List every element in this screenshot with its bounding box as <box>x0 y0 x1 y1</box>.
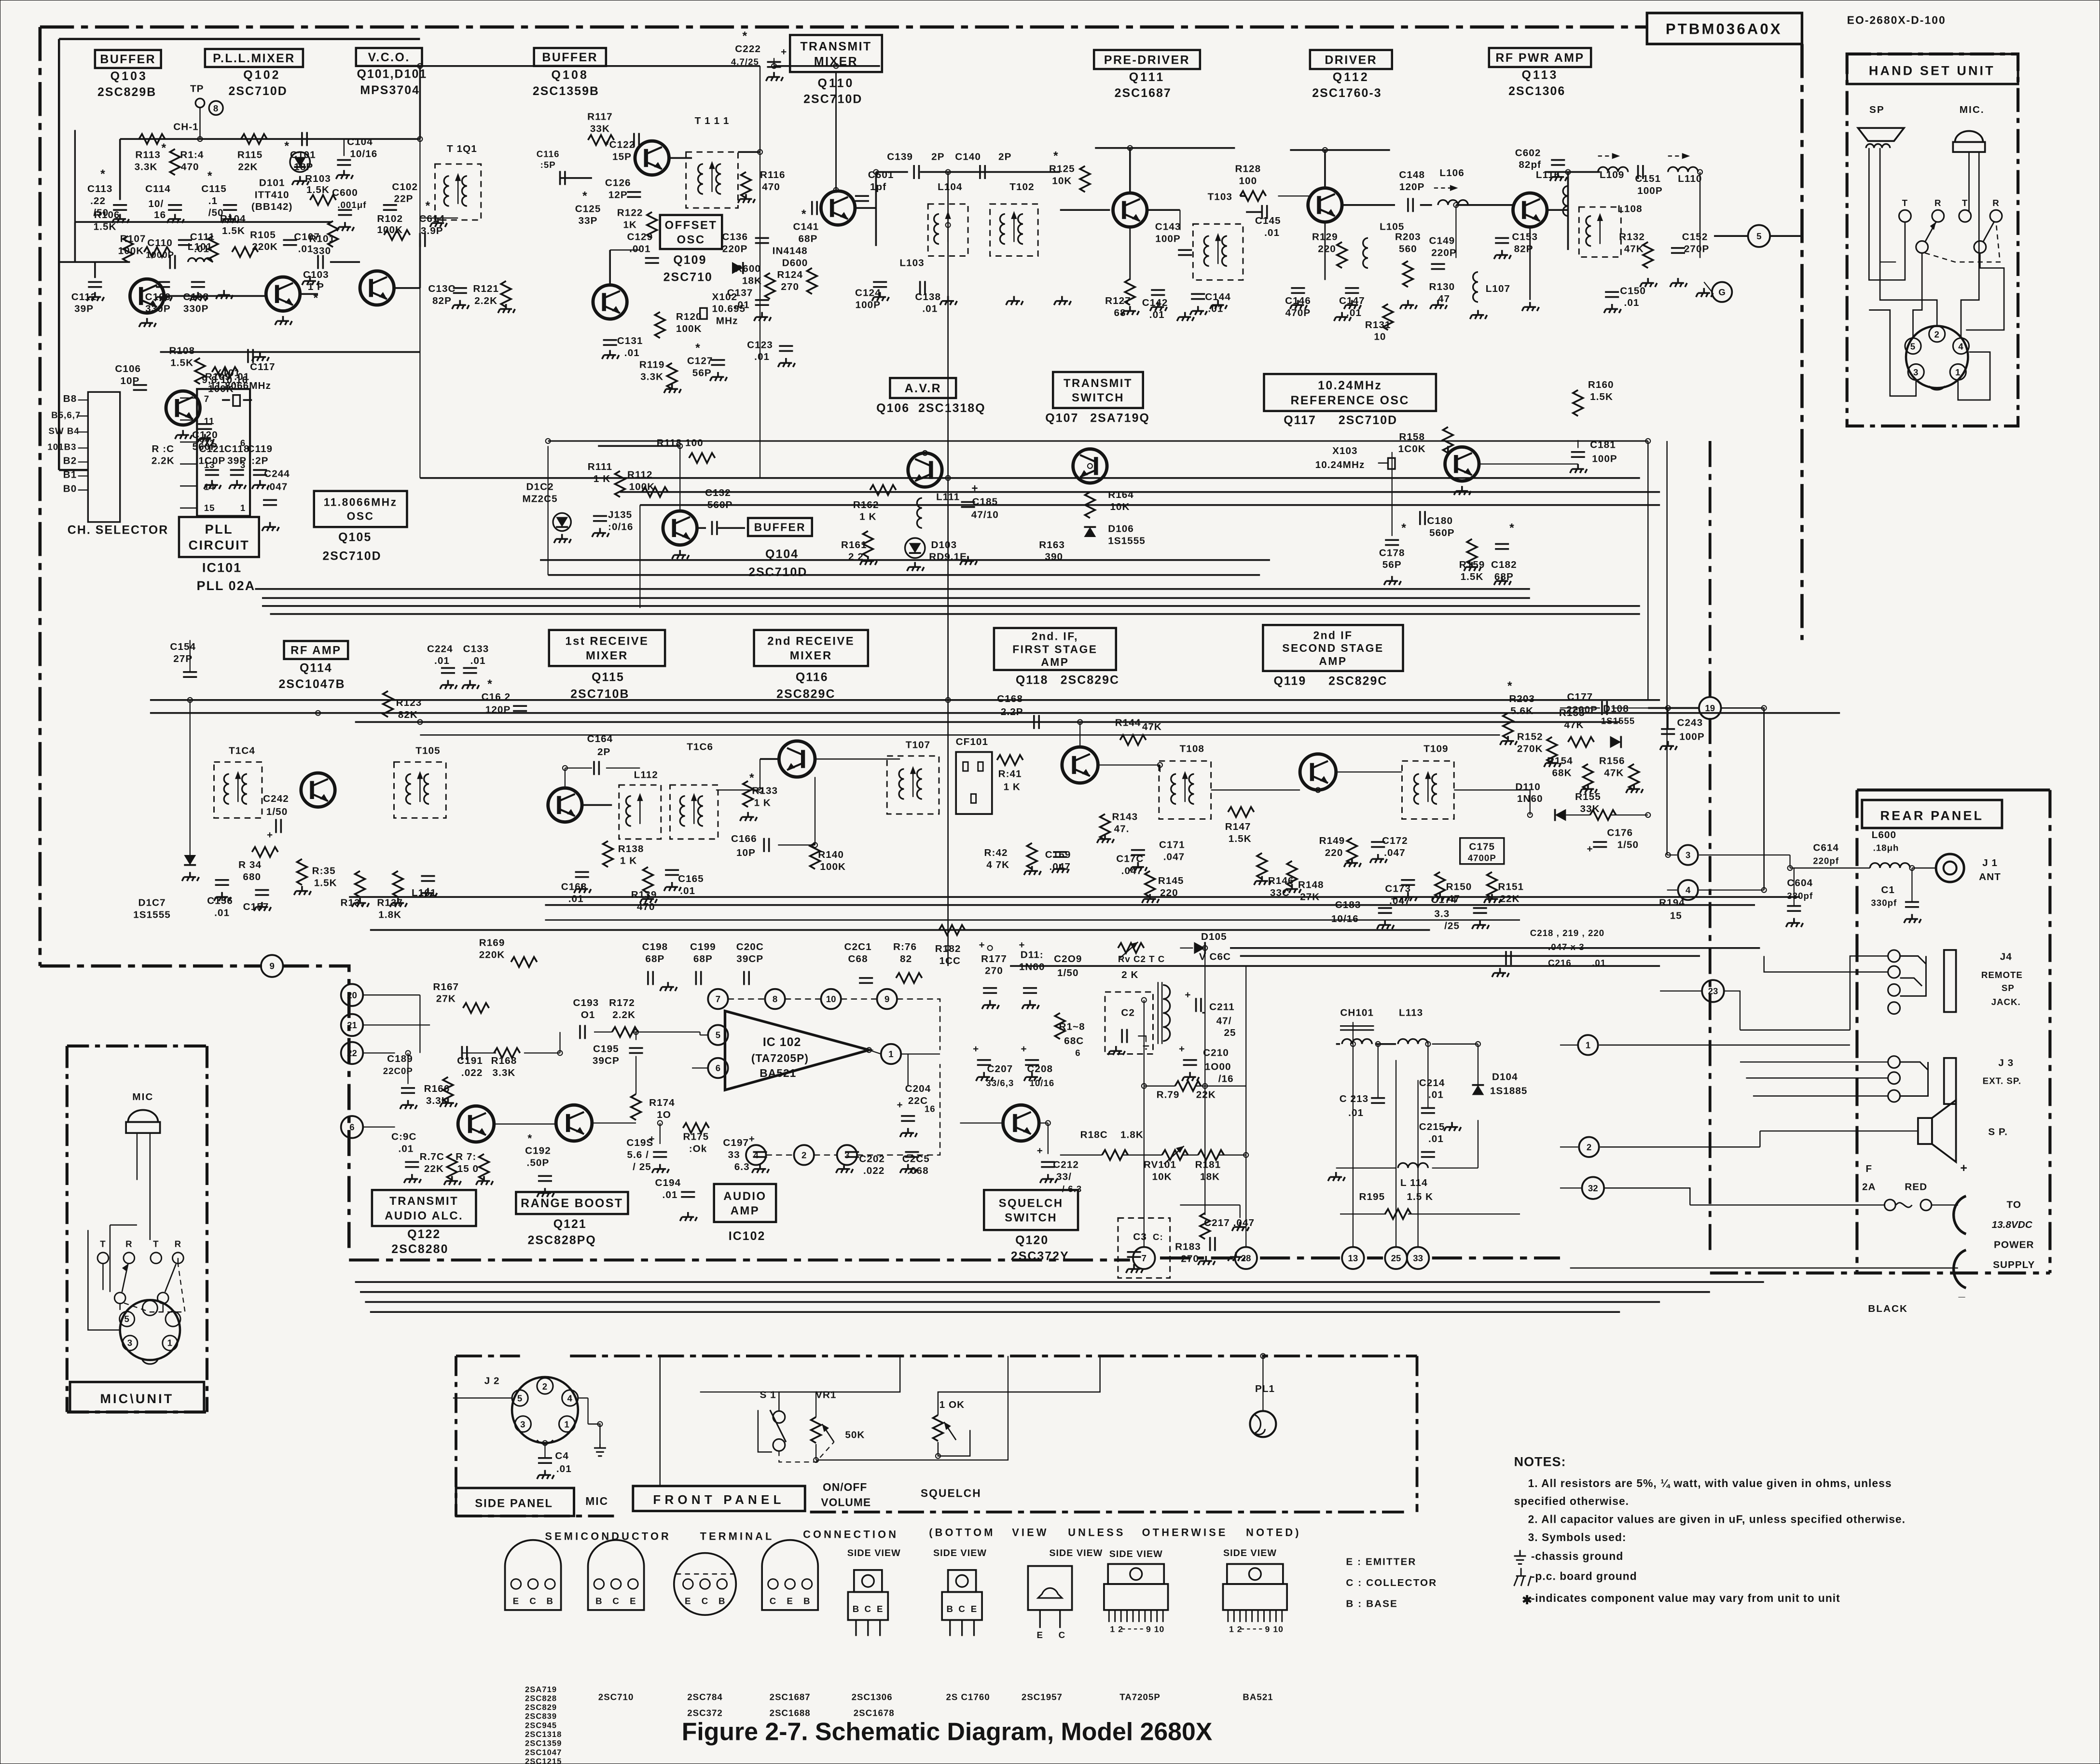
svg-text:6.3: 6.3 <box>734 1161 750 1172</box>
svg-text:C127: C127 <box>687 355 713 366</box>
svg-text:.01: .01 <box>568 893 584 904</box>
capacitor C178 56P <box>1385 540 1399 545</box>
svg-text:33P: 33P <box>579 215 598 226</box>
svg-text:1. All resistors are 5%, ¼ wat: 1. All resistors are 5%, ¼ watt, with va… <box>1528 1477 1892 1489</box>
svg-text:R :C: R :C <box>152 443 174 455</box>
resistor R143 47 <box>1100 814 1110 840</box>
resistor R150 47 <box>1435 872 1445 898</box>
svg-text:470: 470 <box>637 901 655 912</box>
svg-text:C614: C614 <box>1813 842 1839 854</box>
svg-text:C163: C163 <box>561 882 587 893</box>
transformer T107 <box>887 756 939 814</box>
resistor R129 220 <box>1337 242 1347 268</box>
svg-text:2SC710D: 2SC710D <box>322 550 381 563</box>
svg-text:R164: R164 <box>1108 489 1134 500</box>
jack J3 contacts <box>1888 1056 1900 1068</box>
svg-text:C: C <box>702 1596 708 1606</box>
diode D106 1S1555 <box>1084 527 1096 537</box>
svg-text:R111: R111 <box>588 461 612 472</box>
block label 1st RECEIVE MIXER <box>549 630 665 666</box>
svg-text:IC102: IC102 <box>729 1229 766 1243</box>
transistor Q117 <box>1445 447 1479 481</box>
svg-text:560P: 560P <box>1429 527 1455 538</box>
svg-text:R182: R182 <box>935 943 961 954</box>
inductor L111 <box>917 498 922 528</box>
resistor R136 <box>355 871 365 897</box>
svg-text:5: 5 <box>517 1393 523 1404</box>
svg-text:+: + <box>1185 989 1191 1000</box>
svg-text:R181: R181 <box>1195 1159 1221 1171</box>
resistor R114 470 <box>170 149 180 175</box>
wire receive rail y700 <box>150 700 1660 701</box>
svg-text:SW B4: SW B4 <box>49 426 80 436</box>
svg-text:D11:: D11: <box>1021 950 1044 961</box>
svg-text:R163: R163 <box>1039 539 1065 551</box>
svg-text:C197: C197 <box>723 1137 749 1148</box>
svg-text:(TA7205P): (TA7205P) <box>751 1052 809 1064</box>
svg-text:Q119: Q119 <box>1274 675 1307 688</box>
svg-text:EO-2680X-D-100: EO-2680X-D-100 <box>1847 14 1946 27</box>
svg-text:R102: R102 <box>377 213 403 224</box>
svg-text:C103: C103 <box>303 269 329 280</box>
svg-text:R101: R101 <box>309 234 335 245</box>
svg-text:220K: 220K <box>252 241 278 252</box>
svg-text:3: 3 <box>240 460 246 470</box>
capacitor C157 .01 <box>255 890 269 895</box>
grounds c224 c133 <box>440 680 457 689</box>
svg-text:C214: C214 <box>1419 1077 1445 1089</box>
wire term19 link <box>1648 707 1699 708</box>
svg-text:C3: C3 <box>1133 1231 1147 1242</box>
wire t101 links <box>394 288 420 289</box>
rear panel label box <box>1862 800 2002 828</box>
svg-text:VR1: VR1 <box>815 1389 836 1400</box>
svg-text:C216: C216 <box>1548 958 1572 968</box>
svg-text:16: 16 <box>154 209 166 220</box>
svg-text:J 3: J 3 <box>1998 1057 2014 1068</box>
resistor R149 220 <box>1347 838 1357 864</box>
svg-text:B: B <box>595 1596 602 1606</box>
svg-text:R183: R183 <box>1175 1241 1201 1253</box>
svg-text:C17C: C17C <box>1116 854 1144 865</box>
capacitor C115 .1/50 <box>223 205 237 210</box>
node terminal 2 <box>1579 1137 1599 1157</box>
svg-text:2SC1318Q: 2SC1318Q <box>918 401 986 415</box>
svg-text:SP: SP <box>1869 104 1885 115</box>
svg-text:2SC1215: 2SC1215 <box>525 1757 562 1764</box>
svg-text:Q114: Q114 <box>300 661 332 675</box>
svg-text:C : COLLECTOR: C : COLLECTOR <box>1346 1577 1437 1588</box>
svg-text:3.3K: 3.3K <box>493 1067 516 1078</box>
svg-text:A.V.R: A.V.R <box>905 382 941 395</box>
svg-text:2.2K: 2.2K <box>474 295 497 306</box>
svg-text:2SA719Q: 2SA719Q <box>1090 412 1150 425</box>
block label PRE-DRIVER Q111 <box>1094 50 1200 69</box>
svg-text:6: 6 <box>716 1063 720 1073</box>
svg-text:Q117: Q117 <box>1284 413 1316 427</box>
wire main board lower-left dash-dot border <box>40 965 262 966</box>
svg-text:3. Symbols used:: 3. Symbols used: <box>1528 1531 1627 1543</box>
svg-text:V.C.O.: V.C.O. <box>368 51 410 64</box>
svg-text:.01: .01 <box>922 303 938 315</box>
svg-text:Q105: Q105 <box>338 530 372 544</box>
block label TRANSMIT SWITCH <box>1053 372 1143 408</box>
svg-text:BA521: BA521 <box>1243 1692 1273 1702</box>
resistor R106 1.5K <box>123 236 133 262</box>
svg-text:C 213: C 213 <box>1340 1093 1368 1104</box>
svg-text:SQUELCH: SQUELCH <box>921 1487 981 1500</box>
node terminal 28 bottom <box>1235 1247 1257 1269</box>
wire trunk x1353 <box>1353 1022 1354 1248</box>
svg-text:4.7/25: 4.7/25 <box>731 57 759 67</box>
svg-text:MIC: MIC <box>132 1091 153 1102</box>
svg-text:R600: R600 <box>735 263 761 275</box>
resistor R142 47K <box>1027 843 1037 869</box>
svg-text:C131: C131 <box>617 335 643 346</box>
svg-text:10: 10 <box>826 994 836 1004</box>
svg-text:2S C1760: 2S C1760 <box>946 1692 990 1702</box>
svg-text:R: R <box>1992 198 1999 208</box>
svg-text:3: 3 <box>1686 850 1690 860</box>
svg-text:E: E <box>685 1596 691 1606</box>
svg-text:2SC1306: 2SC1306 <box>1508 84 1565 98</box>
svg-text:MIC.: MIC. <box>1960 104 1985 115</box>
node terminal 32 <box>1582 1177 1604 1199</box>
svg-text:E: E <box>513 1596 519 1606</box>
svg-text:1: 1 <box>1586 1040 1590 1050</box>
block label 10.24MHz REFERENCE OSC <box>1264 374 1436 411</box>
svg-text:B: B <box>718 1596 725 1606</box>
svg-text:C176: C176 <box>1607 827 1633 839</box>
svg-text:*: * <box>743 29 748 43</box>
svg-text:D104: D104 <box>1492 1071 1518 1082</box>
svg-text:C140: C140 <box>955 152 981 163</box>
resistor R132 47K <box>1643 242 1653 268</box>
wire osc bias <box>160 352 420 353</box>
block label AUDIO AMP <box>714 1184 776 1222</box>
svg-text:C119: C119 <box>248 443 273 455</box>
wire front panel left border <box>456 1356 457 1516</box>
svg-text:MIXER: MIXER <box>790 649 832 662</box>
svg-text:*: * <box>162 141 167 155</box>
svg-text:120P: 120P <box>485 704 511 716</box>
grounds offset osc <box>602 350 619 359</box>
svg-text:1 2: 1 2 <box>1229 1624 1243 1634</box>
svg-text:2SC828: 2SC828 <box>525 1694 557 1703</box>
svg-text:5.6 /: 5.6 / <box>627 1149 649 1160</box>
svg-text:1/50: 1/50 <box>1617 840 1639 851</box>
svg-text:C4: C4 <box>555 1450 569 1461</box>
svg-text:Q104: Q104 <box>765 547 799 561</box>
svg-text:C106: C106 <box>115 363 141 374</box>
svg-text:L108: L108 <box>1617 203 1642 214</box>
svg-text:1.5K: 1.5K <box>170 358 193 369</box>
capacitor C600 .001uf <box>338 210 352 215</box>
mic capsule 2 <box>128 1110 158 1122</box>
svg-text:C192: C192 <box>525 1145 551 1157</box>
svg-text:C2C5: C2C5 <box>902 1153 930 1164</box>
svg-text:.047: .047 <box>266 482 288 493</box>
svg-text:1.5K: 1.5K <box>94 221 117 233</box>
svg-text:220: 220 <box>1325 847 1343 858</box>
wire trunk x1396 <box>1395 1060 1396 1248</box>
svg-text:R117: R117 <box>587 111 613 123</box>
svg-text:.01: .01 <box>556 1463 572 1475</box>
svg-text:D1C2: D1C2 <box>526 482 554 493</box>
svg-text:SIDE VIEW: SIDE VIEW <box>847 1548 901 1558</box>
svg-text:+: + <box>1486 893 1492 904</box>
node terminal 33 bottom <box>1407 1247 1429 1269</box>
svg-text:C68: C68 <box>848 953 868 965</box>
transistor Q119 <box>1300 754 1336 790</box>
svg-text:330: 330 <box>313 245 331 256</box>
svg-text:C173: C173 <box>1385 883 1411 895</box>
transistor Q103 <box>130 279 164 313</box>
svg-text:R155: R155 <box>1575 791 1601 802</box>
svg-text:C211: C211 <box>1209 1001 1235 1012</box>
svg-text:B: B <box>853 1604 859 1614</box>
capacitor C142 .01 <box>1151 290 1165 295</box>
svg-text:R177: R177 <box>981 953 1007 965</box>
wire rail c222 to mixer <box>774 66 880 67</box>
svg-text:22P: 22P <box>394 193 414 205</box>
wire rf links <box>1146 209 1180 210</box>
ic pin 1 <box>881 1044 901 1064</box>
svg-text:B2: B2 <box>63 455 77 467</box>
jack J4 contacts <box>1888 950 1900 962</box>
wire dash border from 9 to corner <box>283 966 349 1255</box>
svg-text:*: * <box>1401 522 1407 535</box>
wire bus y948 <box>1230 948 1760 949</box>
wire right dashdot vertical <box>1709 441 1711 1250</box>
wire rf emitters <box>1130 227 1131 280</box>
svg-text:J4: J4 <box>2000 951 2012 963</box>
svg-text:R146: R146 <box>1268 875 1294 886</box>
svg-text:*: * <box>695 342 701 355</box>
svg-text:PTBM036A0X: PTBM036A0X <box>1666 20 1782 37</box>
svg-text:+: + <box>749 1133 755 1144</box>
svg-text:120P: 120P <box>1399 181 1425 193</box>
ic dashed pin links <box>728 999 940 1155</box>
resistor R112 100K <box>642 487 668 497</box>
svg-text:68: 68 <box>1114 307 1126 318</box>
filter CF101 <box>956 752 992 814</box>
svg-text:C: C <box>529 1596 536 1606</box>
svg-text:18P: 18P <box>294 161 313 172</box>
ic pin 9 <box>877 989 897 1009</box>
svg-text:+: + <box>781 46 787 57</box>
IC101 PLL chip body <box>197 389 250 516</box>
channel switch block <box>88 392 120 522</box>
wire long rail y614 <box>270 614 1640 615</box>
svg-text:T 1 1 1: T 1 1 1 <box>695 115 730 126</box>
node terminal 3 <box>1678 845 1698 865</box>
svg-text:Q102: Q102 <box>243 69 280 82</box>
svg-text:.01: .01 <box>398 1144 414 1155</box>
resistor R141 1K <box>997 755 1023 765</box>
svg-text:X103: X103 <box>1332 445 1358 456</box>
capacitor C110 1000P <box>170 255 175 269</box>
svg-text:1.5K: 1.5K <box>1229 833 1252 844</box>
svg-text:2SC8280: 2SC8280 <box>391 1242 448 1256</box>
mic dashed switch link <box>124 1264 185 1312</box>
capacitor C156 .01 <box>215 880 229 885</box>
grounds alc <box>400 1100 417 1109</box>
svg-text:22K: 22K <box>1500 893 1520 904</box>
svg-text:T: T <box>153 1239 159 1249</box>
svg-text:C: C <box>612 1596 619 1606</box>
svg-text:22K: 22K <box>238 161 258 172</box>
svg-text:2nd RECEIVE: 2nd RECEIVE <box>767 635 855 648</box>
svg-text:R132: R132 <box>1619 231 1645 242</box>
svg-text:R 34: R 34 <box>238 859 262 870</box>
svg-text:R 7:: R 7: <box>456 1151 476 1162</box>
svg-text:23: 23 <box>1708 986 1718 996</box>
svg-text:R203: R203 <box>1509 693 1535 704</box>
capacitor C117 .01 <box>248 349 253 363</box>
resistor R102 100K <box>384 230 410 240</box>
svg-text:330P: 330P <box>183 303 209 315</box>
wire inner solid border <box>59 39 420 470</box>
svg-text:SWITCH: SWITCH <box>1072 391 1124 404</box>
svg-text:BLACK: BLACK <box>1868 1303 1908 1314</box>
svg-text:+: + <box>1037 1145 1043 1157</box>
svg-text:FIRST STAGE: FIRST STAGE <box>1012 643 1097 655</box>
block label V.C.O. Q101 D101 <box>356 48 422 66</box>
svg-text:+: + <box>979 939 985 951</box>
svg-text:E: E <box>630 1596 636 1606</box>
svg-text:47K: 47K <box>1624 243 1644 254</box>
diode D101 varactor <box>290 152 310 172</box>
wire filter links <box>1336 1044 1340 1045</box>
svg-text:R119: R119 <box>639 359 665 371</box>
ic pin 4 <box>746 1145 766 1165</box>
svg-text:T: T <box>100 1239 106 1249</box>
svg-text:C165: C165 <box>678 873 704 884</box>
wire pa out <box>1546 209 1568 210</box>
svg-text:4: 4 <box>754 1150 759 1160</box>
svg-text:CH101: CH101 <box>1340 1007 1374 1019</box>
svg-text:10K: 10K <box>1052 175 1072 186</box>
svg-text:14: 14 <box>204 482 215 492</box>
svg-text:.01: .01 <box>214 907 230 918</box>
svg-text:9,8,10,16: 9,8,10,16 <box>202 374 248 386</box>
node terminal 9 <box>261 955 283 977</box>
svg-text:B0: B0 <box>63 483 77 495</box>
wire terminal stubs <box>363 994 420 995</box>
svg-text:C152: C152 <box>1682 231 1708 242</box>
package 2SC784 <box>674 1553 736 1615</box>
transistor Q121 <box>556 1105 592 1141</box>
svg-text:2. All capacitor values are gi: 2. All capacitor values are given in uF,… <box>1528 1513 1906 1526</box>
svg-text:C:: C: <box>1153 1232 1163 1242</box>
wire audio rail y897 <box>349 896 1800 897</box>
ic pin 2 <box>794 1145 814 1165</box>
svg-text:C16 2: C16 2 <box>482 691 511 703</box>
svg-text:6: 6 <box>349 1122 354 1132</box>
svg-text:TA7205P: TA7205P <box>1119 1692 1161 1702</box>
svg-text:2SC829C: 2SC829C <box>1328 675 1387 688</box>
capacitor C170 .047 <box>1131 850 1145 855</box>
wire long rail y505 <box>640 505 1660 506</box>
svg-text:C601: C601 <box>868 169 894 180</box>
svg-text:(BOTTOM: (BOTTOM <box>929 1526 995 1538</box>
capacitor C153 82P <box>1495 238 1509 243</box>
svg-text:101B3: 101B3 <box>47 442 76 452</box>
svg-text:SP: SP <box>2002 983 2015 993</box>
svg-text:R108: R108 <box>169 345 195 357</box>
capacitor C114 10/16 <box>168 205 182 210</box>
grounds avr <box>860 556 877 565</box>
svg-text:C169: C169 <box>1045 849 1071 860</box>
svg-text:RV101: RV101 <box>1144 1159 1176 1171</box>
svg-text:POWER: POWER <box>1994 1240 2034 1251</box>
svg-text:MIC\UNIT: MIC\UNIT <box>100 1392 174 1406</box>
node terminal 7 bottom <box>1133 1247 1155 1269</box>
svg-text:2SC710: 2SC710 <box>663 270 713 284</box>
svg-text:C222: C222 <box>735 43 761 55</box>
wire audio rail y905 <box>545 905 1755 906</box>
svg-text:R144: R144 <box>1115 717 1141 729</box>
svg-text:T107: T107 <box>906 739 930 750</box>
svg-text:56P: 56P <box>1382 559 1402 570</box>
svg-text:47.: 47. <box>1114 823 1130 834</box>
svg-text:MZ2C5: MZ2C5 <box>523 493 558 504</box>
svg-text:RF PWR AMP: RF PWR AMP <box>1495 51 1584 65</box>
wire mixer links <box>164 295 266 296</box>
svg-text:2SC1688: 2SC1688 <box>770 1708 811 1718</box>
block label SIDE PANEL <box>456 1488 574 1516</box>
transformer T104 <box>214 762 262 818</box>
wire r183 link <box>1180 1205 1240 1218</box>
svg-text:SQUELCH: SQUELCH <box>999 1197 1064 1210</box>
svg-text:C183: C183 <box>1335 899 1361 910</box>
svg-text:C110: C110 <box>147 237 173 248</box>
svg-text:13.8VDC: 13.8VDC <box>1992 1219 2033 1230</box>
svg-text:C218 , 219 , 220: C218 , 219 , 220 <box>1530 928 1604 938</box>
wire trunk x1246 <box>1245 966 1246 1248</box>
svg-text:2SC710D: 2SC710D <box>748 565 807 579</box>
resistor R161 22 <box>863 531 873 557</box>
block label 2nd IF SECOND STAGE AMP <box>1263 625 1403 671</box>
svg-text:-indicates component value may: -indicates component value may vary from… <box>1531 1592 1840 1604</box>
svg-text:2SC372: 2SC372 <box>687 1708 723 1718</box>
svg-text:10/16: 10/16 <box>1030 1078 1055 1088</box>
svg-text:C139: C139 <box>887 152 913 163</box>
svg-text:27K: 27K <box>436 993 456 1005</box>
svg-text:9: 9 <box>884 994 889 1004</box>
svg-text:B1: B1 <box>63 469 77 481</box>
wire rear terminal links <box>1599 1045 1850 1046</box>
dashed box C2 <box>1105 992 1153 1054</box>
svg-text:R156: R156 <box>1599 755 1625 766</box>
svg-text:9 10: 9 10 <box>1265 1624 1284 1634</box>
svg-text:R153: R153 <box>1559 707 1585 718</box>
svg-text:2SC1359: 2SC1359 <box>525 1739 562 1748</box>
svg-text:B: B <box>803 1596 810 1606</box>
svg-text:22: 22 <box>347 1048 357 1058</box>
svg-text:C199: C199 <box>690 941 716 952</box>
svg-text:SIDE VIEW: SIDE VIEW <box>1109 1549 1163 1559</box>
wire front panel right border <box>1416 1356 1418 1512</box>
svg-text:T109: T109 <box>1423 744 1448 755</box>
svg-text:20: 20 <box>347 990 357 1000</box>
svg-text:C: C <box>865 1604 871 1614</box>
svg-text:SIDE VIEW: SIDE VIEW <box>1049 1548 1103 1558</box>
svg-text:2SC1760-3: 2SC1760-3 <box>1312 86 1382 100</box>
svg-text:Q101,D101: Q101,D101 <box>357 68 427 81</box>
svg-text:SECOND STAGE: SECOND STAGE <box>1282 642 1383 654</box>
